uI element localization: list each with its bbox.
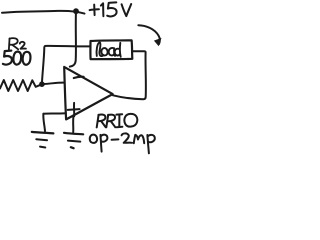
node: junction dot on +15V rail — [73, 8, 79, 14]
label RRIO — [97, 114, 138, 128]
label +15 V — [90, 2, 132, 16]
wire: op-amp output right then up to load — [113, 51, 146, 99]
load box — [90, 40, 132, 59]
wire: op-amp V- pin stem to ground — [72, 115, 74, 132]
value label 500 — [3, 51, 31, 65]
label load (cursive) — [97, 42, 121, 56]
op-amp U1 triangle — [64, 67, 113, 120]
ground symbol left — [32, 132, 54, 148]
resistor R1 zigzag — [0, 80, 42, 91]
wire: from junction up and right to load box — [42, 46, 90, 84]
op-amp plus input symbol — [68, 103, 80, 116]
op-amp minus input symbol — [74, 77, 84, 78]
label op-amp — [90, 133, 155, 153]
label R2 — [9, 38, 26, 49]
wire: ground stem left — [43, 114, 45, 132]
wire: +15V top rail — [2, 11, 85, 14]
wire: non-inverting input to ground — [43, 112, 65, 115]
node: junction dot at resistor output — [39, 81, 45, 87]
annotation arrow (curved, to load) — [138, 25, 160, 44]
wire: junction to op-amp inverting input — [44, 83, 64, 84]
ground symbol right — [64, 133, 83, 148]
arrowhead — [154, 38, 162, 46]
wire: V+ supply drop from rail to op-amp top — [70, 12, 76, 67]
